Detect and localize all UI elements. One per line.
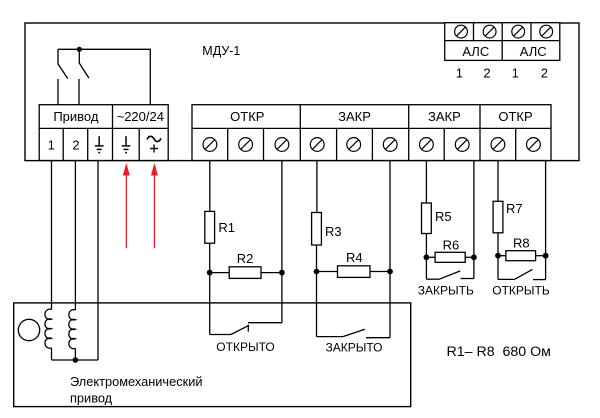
- wire node to ЗАКРЫТО switch right: [389, 272, 391, 338]
- wire node to ОТКРЫТО switch right: [281, 273, 283, 323]
- motor M symbol: [18, 319, 39, 340]
- screw terminal circles ЗАКР: [310, 138, 397, 152]
- wire ОТКР-1 down to R1: [209, 161, 211, 212]
- resistor R6: [426, 252, 474, 262]
- svg-text:R1– R8 680 Ом: R1– R8 680 Ом: [447, 344, 551, 360]
- terminal block ОТКР (left): [192, 105, 551, 161]
- label R6: [443, 238, 460, 253]
- red arrow into ground terminal: [123, 163, 130, 248]
- terminal block ЗАКР (left): [337, 105, 409, 161]
- svg-text:ЗАКР: ЗАКР: [428, 109, 461, 124]
- switch contact SA1b (right blade to Привод 2): [79, 49, 89, 105]
- svg-text:Привод: Привод: [53, 109, 99, 124]
- wire ЗАКР-1 down to R3: [316, 161, 318, 213]
- svg-text:1: 1: [48, 138, 55, 153]
- resistor R2: [210, 267, 282, 279]
- svg-text:ОТКРЫТО: ОТКРЫТО: [216, 340, 274, 354]
- node R8 right: [543, 253, 549, 259]
- label МДУ-1: [202, 44, 240, 58]
- svg-text:R2: R2: [237, 251, 254, 266]
- wire node to ОТКРЫТЬ button right: [545, 256, 547, 280]
- svg-text:2: 2: [72, 138, 79, 153]
- node R4 right: [387, 269, 393, 275]
- resistor R8: [498, 251, 546, 261]
- wire ОТКР(btn)-2 down: [545, 161, 547, 256]
- svg-text:R6: R6: [443, 238, 460, 253]
- svg-text:АЛС: АЛС: [520, 44, 547, 59]
- АЛС pin numbers 1 2 1 2: [456, 65, 548, 80]
- svg-text:МДУ-1: МДУ-1: [202, 44, 240, 58]
- terminal block ЗАКР (right, buttons): [428, 105, 480, 161]
- node R1/R2 left: [207, 270, 213, 276]
- terminal block Привод: [39, 105, 168, 161]
- wire R3 to node: [316, 245, 318, 272]
- wire ЗАКР(btn)-2 down: [473, 161, 475, 258]
- label R3: [325, 224, 342, 239]
- label R5: [435, 209, 452, 224]
- coil L1: [45, 309, 52, 360]
- resistor R1: [205, 211, 215, 243]
- label ОТКРЫТЬ: [492, 283, 550, 297]
- wire coil common link: [52, 359, 99, 361]
- pin 1 label: [48, 138, 55, 153]
- resistor R3: [312, 213, 322, 246]
- svg-text:ОТКР: ОТКР: [230, 109, 264, 124]
- label ЗАКРЫТО: [326, 340, 383, 354]
- wire ОТКР-3 down: [281, 161, 283, 273]
- resistor R4: [317, 266, 391, 278]
- screw terminal circles АЛС: [455, 25, 553, 38]
- label R4: [346, 250, 363, 265]
- resistor R5: [422, 203, 432, 234]
- ~ + polarity symbol: [147, 136, 161, 152]
- wire node to ОТКРЫТО switch left: [209, 273, 211, 335]
- wire ЗАКР-3 down: [389, 161, 391, 272]
- pin 2 label: [72, 138, 79, 153]
- wire Привод 1 to motor coil: [51, 161, 53, 310]
- node R2 right: [279, 270, 285, 276]
- wire R7 to node: [497, 233, 499, 256]
- red arrow into ~+ terminal: [151, 163, 158, 248]
- svg-text:ЗАКРЫТЬ: ЗАКРЫТЬ: [418, 283, 474, 297]
- svg-text:R1: R1: [218, 220, 235, 235]
- МДУ-1 enclosure box: [25, 23, 579, 161]
- svg-text:R7: R7: [506, 201, 523, 216]
- node coil junction: [73, 357, 79, 363]
- wire Привод 2 to motor coil: [74, 161, 76, 311]
- screw terminal circles ЗАКР right: [420, 138, 470, 152]
- node R3/R4 left: [314, 269, 320, 275]
- wire node to ОТКРЫТЬ button left: [497, 256, 499, 280]
- svg-text:ЗАКР: ЗАКР: [338, 109, 371, 124]
- resistor R7: [493, 201, 503, 233]
- wire top bus from switch node to ~ terminal: [58, 49, 150, 105]
- terminal block ~220/24: [117, 109, 164, 161]
- label R2: [237, 251, 254, 266]
- svg-text:2: 2: [483, 65, 490, 80]
- svg-text:ОТКРЫТЬ: ОТКРЫТЬ: [492, 283, 550, 297]
- label R8: [513, 236, 530, 251]
- terminal block АЛС: [445, 23, 560, 61]
- wire node to ЗАКРЫТЬ button right: [473, 257, 475, 278]
- label ОТКРЫТО: [216, 340, 274, 354]
- label Электромеханический привод: [70, 374, 203, 406]
- node R6 right: [471, 254, 477, 260]
- node R5/R6 left: [424, 254, 430, 260]
- label R1: [218, 220, 235, 235]
- svg-text:АЛС: АЛС: [462, 44, 489, 59]
- label ЗАКРЫТЬ: [418, 283, 474, 297]
- svg-text:ОТКР: ОТКР: [498, 109, 532, 124]
- wire R5 to node: [425, 234, 427, 258]
- label R7: [506, 201, 523, 216]
- screw terminal circles ОТКР: [203, 138, 289, 152]
- limit switch ОТКРЫТО: [210, 323, 282, 335]
- svg-text:R5: R5: [435, 209, 452, 224]
- svg-text:R8: R8: [513, 236, 530, 251]
- ground symbol in ~220/24 block: [122, 136, 131, 152]
- wire ОТКР(btn)-1 down to R7: [497, 161, 499, 202]
- wire node to ЗАКРЫТО switch left: [316, 272, 318, 337]
- push button ОТКРЫТЬ: [498, 269, 546, 279]
- limit switch ЗАКРЫТО: [317, 329, 391, 338]
- wire ground return to Привод gnd: [97, 161, 99, 361]
- svg-text:R4: R4: [346, 250, 363, 265]
- svg-text:~220/24: ~220/24: [117, 109, 164, 124]
- wire node to ЗАКРЫТЬ button left: [425, 257, 427, 279]
- coil L2: [69, 310, 76, 360]
- screw terminal circles ОТКР right: [491, 138, 540, 152]
- terminal block ОТКР (right, buttons): [498, 109, 532, 161]
- push button ЗАКРЫТЬ: [426, 271, 474, 279]
- wire ЗАКР(btn)-1 down to R5: [425, 161, 427, 204]
- node junction on top bus: [77, 47, 82, 52]
- svg-text:2: 2: [541, 65, 548, 80]
- svg-text:привод: привод: [70, 391, 113, 406]
- svg-text:1: 1: [512, 65, 519, 80]
- Электромеханический привод box: [14, 303, 411, 407]
- svg-text:R3: R3: [325, 224, 342, 239]
- svg-text:1: 1: [456, 65, 463, 80]
- svg-text:Электромеханический: Электромеханический: [70, 374, 203, 389]
- node R7/R8 left: [495, 253, 501, 259]
- svg-text:ЗАКРЫТО: ЗАКРЫТО: [326, 340, 383, 354]
- switch contact SA1a (left blade to Привод 1): [58, 49, 68, 105]
- note R1–R8 value: [447, 344, 551, 360]
- ground symbol in Привод block: [95, 136, 104, 152]
- wire R1 to node: [209, 243, 211, 272]
